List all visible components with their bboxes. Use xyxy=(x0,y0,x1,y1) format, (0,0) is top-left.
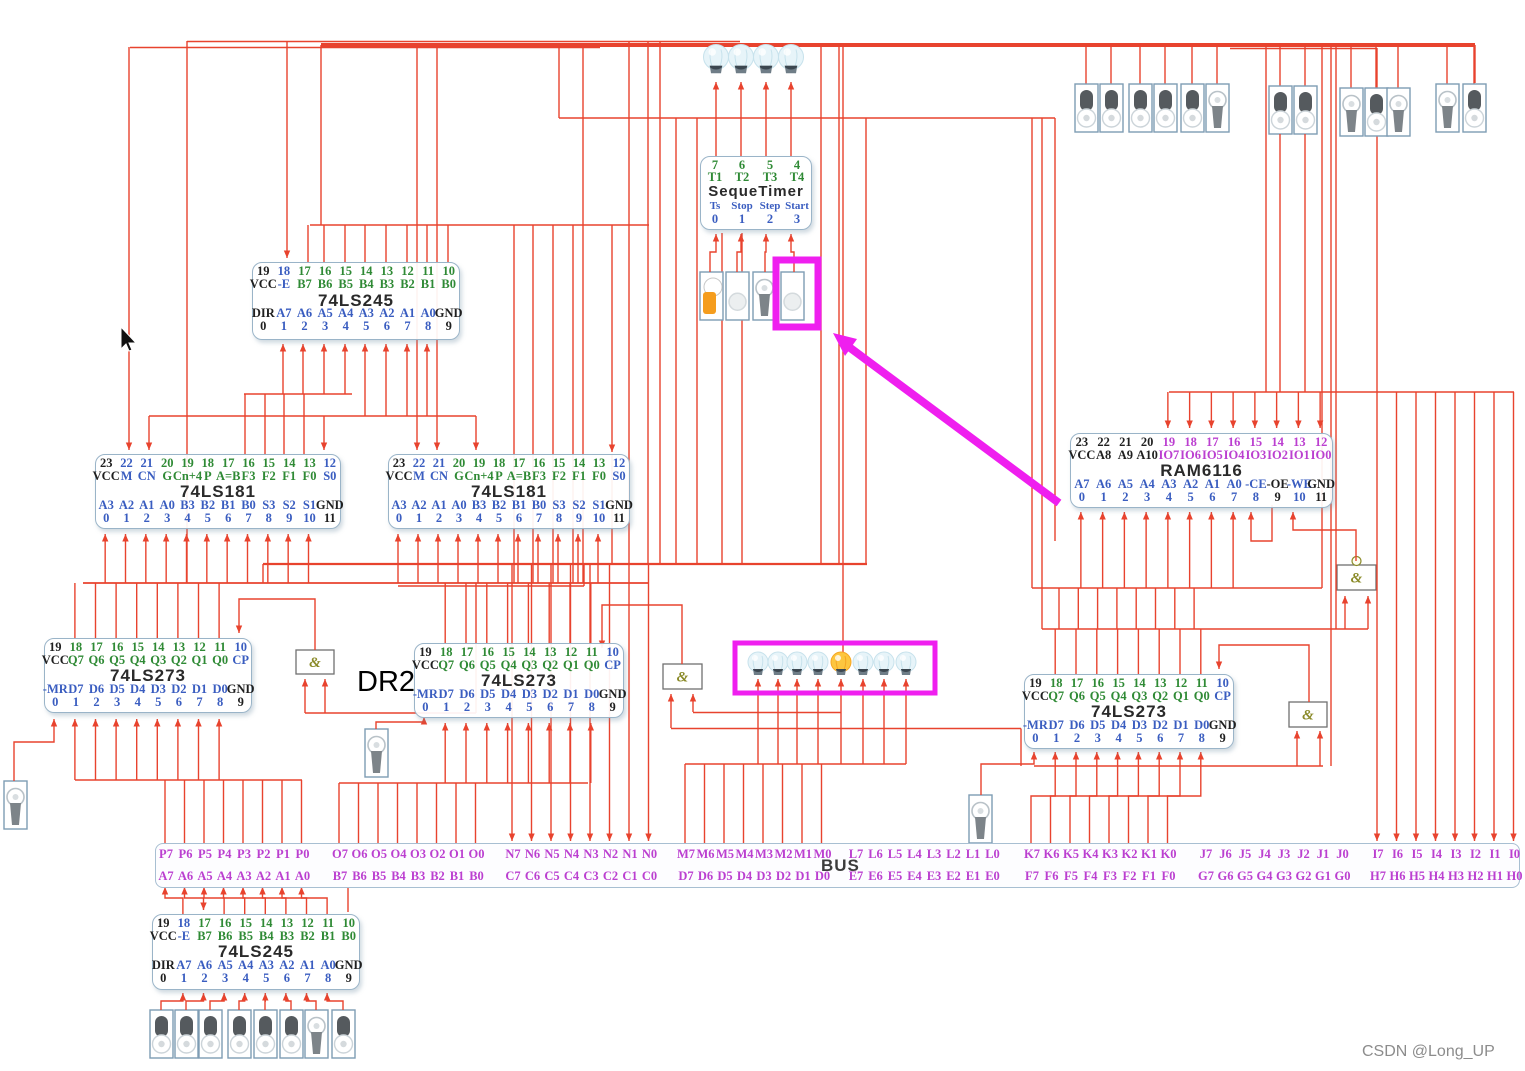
wire BUS M column xyxy=(743,764,745,843)
wire rail to switch B xyxy=(1279,45,1281,86)
wire y394 rail up to U1 A pin xyxy=(282,344,284,394)
switch group C xyxy=(1365,88,1388,136)
wire middle vertical xyxy=(865,118,867,564)
wire top rail lower branch xyxy=(130,47,600,49)
wire rail to switch A xyxy=(1110,45,1112,84)
wire middle vertical xyxy=(647,41,649,564)
wire switch B down xyxy=(1279,134,1281,392)
switch timer input xyxy=(726,272,749,320)
wire G2 input a xyxy=(670,694,672,728)
svg-text:&: & xyxy=(1351,571,1363,587)
register U5 74LS273 xyxy=(44,638,252,713)
wire y416 corner down to U2 pin21 xyxy=(148,416,150,450)
switch input row bottom xyxy=(199,1010,222,1058)
wire lamp feed xyxy=(883,679,885,764)
wire drop to BUS N pin xyxy=(648,564,650,841)
wire down into RAM IO pin xyxy=(1189,392,1191,428)
wire bottom switch to U9 pin xyxy=(239,993,245,1010)
wire BUS P column xyxy=(301,780,303,843)
wire lamp feed xyxy=(796,679,798,764)
wire up into U2 bottom pin xyxy=(247,534,249,583)
wire right fan to BUS I pin xyxy=(1376,392,1378,841)
wire G2 input rail y728 xyxy=(671,728,1021,730)
switch S-right xyxy=(969,795,992,843)
bus BUS xyxy=(155,843,1520,888)
wire up into U2 bottom pin xyxy=(287,534,289,583)
wire U6 Q pin to rail xyxy=(590,583,592,643)
svg-text:&: & xyxy=(1302,708,1314,724)
wire down into RAM IO pin xyxy=(1319,392,1321,428)
wire right fan to BUS I pin xyxy=(1435,392,1437,841)
wire BUS P column xyxy=(164,780,166,843)
wire right fan to BUS I pin xyxy=(1415,392,1417,841)
wire y394 corner down to U2 F pin xyxy=(264,394,266,454)
wire lamp feed xyxy=(905,679,907,764)
wire BUS K to U7 D pin xyxy=(1031,752,1055,843)
register U7 74LS273 xyxy=(1024,674,1234,749)
memory U8 RAM6116 xyxy=(1070,433,1333,508)
wire bottom switch to U9 pin xyxy=(264,993,266,1010)
wire middle vertical xyxy=(675,118,677,564)
wire y225 rail drop to U1 pin14 xyxy=(364,225,366,262)
switch group B xyxy=(1294,86,1317,134)
wire up into U5 D pin xyxy=(177,719,179,780)
wire timer switch to pin xyxy=(737,234,741,272)
wire middle vertical xyxy=(820,45,822,564)
wire bottom switch to U9 pin xyxy=(307,993,317,1010)
wire up into RAM A pin xyxy=(1080,512,1082,588)
wire G4 input b xyxy=(1367,596,1369,629)
wire BUS K to U7 D pin xyxy=(1129,752,1160,843)
switch input row bottom xyxy=(280,1010,303,1058)
wire U6 Q pin to rail xyxy=(507,583,509,643)
wire G2 input rail y712 xyxy=(693,712,841,714)
svg-text:&: & xyxy=(309,655,321,671)
wire y416 rail up to U1 A pin xyxy=(364,344,366,416)
wire middle vertical xyxy=(582,45,584,583)
wire bottom switch to U9 pin xyxy=(186,993,204,1010)
switch input row bottom xyxy=(332,1010,355,1058)
wire U6 Q pin to rail xyxy=(548,583,550,643)
wire y394 rail up to U1 A pin xyxy=(323,344,325,394)
wire x612 crossing continuation xyxy=(611,455,613,564)
wire up into U3 bottom pin xyxy=(497,534,499,583)
wire staircase RAM to U7 xyxy=(1097,588,1099,629)
wire middle vertical xyxy=(838,45,840,564)
wire BUS M column xyxy=(821,764,823,843)
wire lamp feed xyxy=(757,679,759,764)
wire vertical x1331 xyxy=(1330,45,1332,766)
switch input row bottom xyxy=(254,1010,277,1058)
wire G1 input feed xyxy=(475,583,477,713)
wire rail to switch A xyxy=(1216,45,1218,84)
AND gate G1 xyxy=(296,650,334,674)
wire y394 rail up to U1 A pin xyxy=(344,344,346,394)
wire y225 rail drop to U1 pin17 xyxy=(307,225,309,262)
wire BUS O column xyxy=(338,783,340,843)
wire down into RAM IO pin xyxy=(1254,392,1256,428)
wire up into U5 D pin xyxy=(218,719,220,780)
wire up into U6 D pin xyxy=(465,723,467,783)
wire BUS O column xyxy=(397,783,399,843)
wire U5 Q pin to rail xyxy=(136,583,138,638)
wire rail to switch A xyxy=(1085,45,1087,84)
switch group C xyxy=(1340,88,1363,136)
switch input row bottom xyxy=(175,1010,198,1058)
wire BUS K to U7 D pin xyxy=(1109,752,1138,843)
wire rail to switch A xyxy=(1164,45,1166,84)
wire y394 corner down to U2 F pin xyxy=(283,394,285,454)
wire RAM -CE loop xyxy=(1251,505,1272,541)
switch group A xyxy=(1075,84,1098,132)
wire -MR rail y766 to G3 xyxy=(1034,765,1323,767)
wire BUS P column xyxy=(184,780,186,843)
wire switch B down xyxy=(1304,134,1306,392)
wire y225 rail drop to U1 pin15 xyxy=(344,225,346,262)
wire middle vertical xyxy=(696,118,698,564)
wire vertical to lit lamp xyxy=(842,45,844,657)
wire down into U7 top pin xyxy=(1054,629,1056,674)
wire BUS K to U7 D pin xyxy=(1070,752,1097,843)
wire y225 rail drop to U1 pin12 xyxy=(406,225,408,262)
wire BUS O column xyxy=(436,783,438,843)
wire bottom switch to U9 pin xyxy=(210,993,224,1010)
wire top rail upper branch xyxy=(187,41,740,43)
switch group B xyxy=(1269,86,1292,134)
wire down into U7 top pin xyxy=(1200,629,1202,674)
wire up into RAM A pin xyxy=(1145,512,1147,588)
wire RAM rail feed x1266 xyxy=(1265,45,1267,392)
wire down into U7 top pin xyxy=(1096,629,1098,674)
wire up into U2 bottom pin xyxy=(165,534,167,583)
wire up into RAM A pin xyxy=(1123,512,1125,588)
wire BUS P column xyxy=(203,780,205,843)
wire S-left to U5 -MR xyxy=(14,719,54,781)
wire U6 Q pin to rail xyxy=(465,583,467,643)
wire drop to BUS N pin xyxy=(609,564,611,841)
wire drop to BUS N pin xyxy=(628,564,630,841)
wire up into U6 D pin xyxy=(548,723,550,783)
wire BUS M column xyxy=(704,764,706,843)
wire up into U6 D pin xyxy=(569,723,571,783)
wire top rail thin extension xyxy=(1230,48,1377,50)
wire middle vertical xyxy=(628,41,630,564)
wire y225 crossing drop xyxy=(532,225,534,583)
wire up into U6 D pin xyxy=(507,723,509,783)
wire U9 GND stub xyxy=(347,886,349,912)
wire up into RAM A pin xyxy=(1167,512,1169,588)
wire down into U7 top pin xyxy=(1075,629,1077,674)
switch group D xyxy=(1463,84,1486,132)
wire y225 rail drop to U1 pin16 xyxy=(323,225,325,262)
wire down into U7 top pin xyxy=(1179,629,1181,674)
wire rail to switch A xyxy=(1139,45,1141,84)
wire up into U3 bottom pin xyxy=(517,534,519,583)
wire U5 Q pin to rail xyxy=(198,583,200,638)
wire G4 input a xyxy=(1344,596,1346,629)
switch group A xyxy=(1154,84,1177,132)
wire staircase RAM to U7 xyxy=(1174,588,1176,629)
wire BUS O column xyxy=(416,783,418,843)
wire feed x1042 xyxy=(1041,118,1043,629)
wire drop to BUS N pin xyxy=(511,564,513,841)
wire BUS A columns to U9 xyxy=(162,887,168,895)
wire BUS O column xyxy=(475,783,477,843)
wire right fan to BUS I pin xyxy=(1454,392,1456,841)
switch timer input xyxy=(700,272,723,320)
wire U5 Q pin to rail xyxy=(218,583,220,638)
wire rail y392 xyxy=(1169,391,1514,393)
wire up into U6 D pin xyxy=(527,723,529,783)
wire y225 rail drop to U1 pin11 xyxy=(426,225,428,262)
wire U6 Q pin to rail xyxy=(569,583,571,643)
wire bottom switch to U9 pin xyxy=(161,993,183,1010)
wire BUS O column xyxy=(377,783,379,843)
switch timer input xyxy=(753,272,776,320)
wire rail to switch C xyxy=(1397,45,1399,88)
switch S-left xyxy=(4,781,27,829)
wire up into U5 D pin xyxy=(115,719,117,780)
wire y416 rail up to U1 A pin xyxy=(385,344,387,416)
wire BUS M column xyxy=(782,764,784,843)
wire G2 output to U6 CP xyxy=(602,605,682,664)
svg-text:&: & xyxy=(677,670,689,686)
wire staircase RAM to U7 xyxy=(1155,588,1157,629)
wire up into U5 D pin xyxy=(198,719,200,780)
wire BUS K to U7 D pin xyxy=(1168,752,1201,843)
watermark xyxy=(1362,1043,1495,1061)
wire P rail y780 xyxy=(75,779,302,781)
wire G1 input b xyxy=(324,679,326,713)
wire rail to switch D xyxy=(1473,45,1475,84)
wire G2 input b xyxy=(692,694,694,712)
wire staircase RAM to U7 xyxy=(1058,588,1060,629)
wire G1 output to U5 CP xyxy=(239,599,315,650)
wire rail to switch C xyxy=(1350,45,1352,88)
wire up into RAM A pin xyxy=(1189,512,1191,588)
NAND gate G4 xyxy=(1337,557,1376,591)
wire M lamp rail xyxy=(685,763,906,765)
wire down into RAM IO pin xyxy=(1210,392,1212,428)
wire BUS P column xyxy=(223,780,225,843)
indicator lamp row xyxy=(748,652,768,675)
mouse cursor xyxy=(121,327,136,351)
wire down into RAM IO pin xyxy=(1297,392,1299,428)
switch input row bottom xyxy=(150,1010,173,1058)
wire BUS P column xyxy=(262,780,264,843)
wire x1055 down xyxy=(1054,118,1056,541)
wire up into U5 D pin xyxy=(95,719,97,780)
switch S-mid xyxy=(365,729,388,777)
wire y394 corner down to U2 F pin xyxy=(244,394,246,454)
wire BUS K to U7 D pin xyxy=(1148,752,1180,843)
wire right fan to BUS I pin xyxy=(1513,392,1515,841)
wire up into U2 bottom pin xyxy=(206,534,208,583)
wire U5 Q pin to rail xyxy=(74,583,76,638)
wire BUS K to U7 D pin xyxy=(1051,752,1077,843)
wire staircase RAM to U7 xyxy=(1193,588,1195,629)
wire lamp feed xyxy=(840,679,842,764)
wire drop to U1 pin18 -E xyxy=(286,41,288,258)
wire G1 input rail xyxy=(305,712,476,714)
wire y729 to y766 link xyxy=(1020,729,1022,767)
wire y394 rail up to U1 A pin xyxy=(302,344,304,394)
wire down into U7 top pin xyxy=(1137,629,1139,674)
wire y394 drop to U2 pin13 xyxy=(303,394,305,454)
wire right fan to BUS I pin xyxy=(1396,392,1398,841)
wire RAM A rail y588 xyxy=(1032,587,1322,589)
wire drop to BUS N pin xyxy=(550,564,552,841)
node DR2 label xyxy=(357,666,415,699)
wire up into U3 bottom pin xyxy=(477,534,479,583)
wire up into U2 bottom pin xyxy=(308,534,310,583)
wire BUS M column xyxy=(723,764,725,843)
wire lamp feed xyxy=(777,679,779,764)
wire G4 output to RAM -WE xyxy=(1293,512,1356,561)
wire up into U2 bottom pin xyxy=(104,534,106,583)
wire BUS M column xyxy=(684,764,686,843)
wire up into RAM A pin xyxy=(1232,512,1234,588)
switch group C xyxy=(1387,88,1410,136)
wire down into U7 top pin xyxy=(1117,629,1119,674)
wire G3 input b xyxy=(1319,731,1321,766)
wire BUS P column xyxy=(242,780,244,843)
wire y225 crossing drop xyxy=(552,225,554,583)
wire up into U2 bottom pin xyxy=(145,534,147,583)
wire up into U3 bottom pin xyxy=(397,534,399,583)
switch group A xyxy=(1206,84,1229,132)
wire crossing column x187 xyxy=(186,41,188,583)
wire right fan to BUS I pin xyxy=(1474,392,1476,841)
wire lamp feed xyxy=(862,679,864,764)
wire rail y564 xyxy=(263,563,867,565)
wire rail join x584 xyxy=(583,564,585,586)
wire middle vertical xyxy=(659,41,661,564)
wire staircase RAM to U7 xyxy=(1116,588,1118,629)
wire up into U6 D pin xyxy=(486,723,488,783)
wire U6 Q pin to rail xyxy=(444,583,446,643)
wire G3 input a xyxy=(1296,731,1298,766)
wire rail join x263 xyxy=(262,564,264,583)
wire G3 output to U7 CP xyxy=(1219,645,1309,702)
wire drop to BUS N pin xyxy=(531,564,533,841)
wire up into U5 D pin xyxy=(74,719,76,780)
switch timer input xyxy=(781,272,804,320)
wire U5 Q pin to rail xyxy=(177,583,179,638)
wire up into U3 bottom pin xyxy=(457,534,459,583)
wire up into U6 D pin xyxy=(444,723,446,783)
wire drop to BUS N pin xyxy=(570,564,572,841)
switch group A xyxy=(1129,84,1152,132)
wire N staircase rail xyxy=(398,585,584,587)
wire y225 crossing drop xyxy=(513,225,515,583)
wire U6 Q pin to rail xyxy=(527,583,529,643)
wire y416 rail up to U1 A pin xyxy=(406,344,408,416)
register U6 74LS273 xyxy=(414,643,624,718)
wire U5 Q pin to rail xyxy=(156,583,158,638)
wire left column to U2 pin22 xyxy=(128,47,130,450)
wire lamp feed xyxy=(817,679,819,764)
wire bottom switch to U9 pin xyxy=(327,993,343,1010)
wire down into RAM IO pin xyxy=(1167,392,1169,428)
sequencer U4 SequeTimer xyxy=(700,156,812,230)
wire U5 Q pin to rail xyxy=(115,583,117,638)
wire bottom switch to U9 pin xyxy=(286,993,291,1010)
wire staircase RAM to U7 xyxy=(1135,588,1137,629)
wire up into U3 bottom pin xyxy=(537,534,539,583)
wire BUS M column xyxy=(801,764,803,843)
wire y225 drop to U3 pin12 S0 xyxy=(611,225,613,452)
wire timer crossing drop b xyxy=(741,233,743,564)
wire G1 input a xyxy=(304,679,306,713)
wire up into U3 bottom pin xyxy=(417,534,419,583)
wire staircase RAM to U7 xyxy=(1077,588,1079,629)
switch group A xyxy=(1181,84,1204,132)
wire rail to switch B xyxy=(1304,45,1306,86)
wire timer switch to pin xyxy=(765,234,766,272)
switch group D xyxy=(1436,84,1459,132)
wire down into RAM IO pin xyxy=(1232,392,1234,428)
bus transceiver U1 74LS245 xyxy=(252,262,460,340)
wire rail y583 xyxy=(83,582,649,584)
wire rail under U1 y416 xyxy=(149,415,476,417)
wire U6 Q pin to rail xyxy=(486,583,488,643)
wire timer switch to pin xyxy=(710,234,716,272)
wire rail drop x321 xyxy=(320,45,322,225)
wire up into U3 bottom pin xyxy=(577,534,579,583)
wire rail to switch D xyxy=(1446,45,1448,84)
wire rail under U1 y394 xyxy=(244,393,352,395)
bus transceiver U9 74LS245 xyxy=(152,914,360,990)
timer lamp row xyxy=(704,45,729,74)
wire rail riser x559 xyxy=(558,47,560,118)
wire timer switch to pin xyxy=(791,234,794,272)
wire BUS K to U7 D pin xyxy=(1090,752,1118,843)
wire BUS P column xyxy=(281,780,283,843)
wire horizontal rail y118 xyxy=(559,117,1055,119)
wire up into U3 bottom pin xyxy=(597,534,599,583)
wire up into RAM A pin xyxy=(1102,512,1104,588)
wire top power rail xyxy=(321,43,1475,47)
wire S-right to U7 -MR xyxy=(981,752,1034,795)
wire down into RAM IO pin xyxy=(1276,392,1278,428)
wire BUS M column xyxy=(762,764,764,843)
wire up into U3 bottom pin xyxy=(557,534,559,583)
annotation arrow xyxy=(849,347,1059,503)
wire up into U5 D pin xyxy=(156,719,158,780)
wire down into U7 top pin xyxy=(1158,629,1160,674)
AND gate G2 xyxy=(663,664,702,689)
wire y416 drop to U3 pin19 xyxy=(475,416,477,450)
wire O rail y780b xyxy=(339,782,588,784)
wire top rail drop to U3 pin22 xyxy=(416,45,418,450)
wire up into U5 D pin xyxy=(136,719,138,780)
wire top rail drop to U3 pin21 xyxy=(436,45,438,450)
wire RAM A rail y629 xyxy=(1042,628,1368,630)
wire y225 crossing drop xyxy=(572,225,574,583)
wire rail to switch A xyxy=(1191,45,1193,84)
wire U5 Q pin to rail xyxy=(95,583,97,638)
wire BUS O column xyxy=(455,783,457,843)
wire vertical x1322 xyxy=(1321,45,1323,588)
wire y225 rail drop to U1 pin10 xyxy=(447,225,449,262)
wire rail to switch C xyxy=(1375,45,1377,88)
wire drop to BUS N pin xyxy=(589,564,591,841)
wire up into U3 bottom pin xyxy=(437,534,439,583)
wire lamp risers from timer xyxy=(715,82,717,156)
wire right fan feed x1377 xyxy=(1376,48,1378,392)
wire y416 rail up to U1 A pin xyxy=(426,344,428,416)
